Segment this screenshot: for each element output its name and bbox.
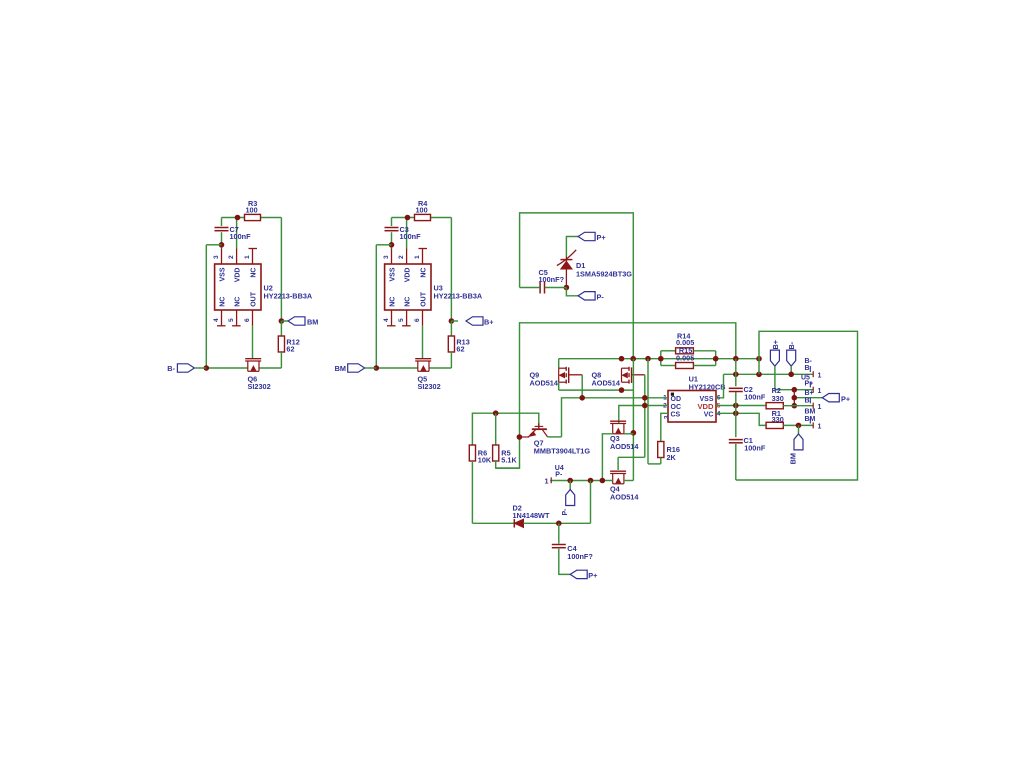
node U2 left junction xyxy=(204,365,210,371)
svg-text:B: B xyxy=(805,397,810,404)
node VC cap tap xyxy=(733,411,739,417)
wire C4 to P+ xyxy=(559,549,570,575)
svg-text:4: 4 xyxy=(383,318,390,322)
svg-text:BM: BM xyxy=(335,364,346,373)
op-amp U2 HY2213-BB3A body xyxy=(215,264,313,310)
wire OC row xyxy=(619,406,668,424)
svg-text:BM: BM xyxy=(805,408,816,415)
wire D2 to C4 node xyxy=(524,481,591,524)
node rail corner xyxy=(756,356,762,362)
pin U1.3 CS xyxy=(663,412,680,419)
svg-text:1SMA5924BT3G: 1SMA5924BT3G xyxy=(576,270,632,279)
svg-text:B-: B- xyxy=(787,341,796,349)
wire R5 top stub xyxy=(495,413,497,445)
node VDD cap tap xyxy=(733,403,739,409)
svg-text:2: 2 xyxy=(398,255,405,259)
resistor R15 xyxy=(676,346,695,369)
wire rail to R16 bottom xyxy=(648,359,661,464)
svg-text:D1: D1 xyxy=(576,261,585,270)
wire U2 left branch xyxy=(206,245,221,368)
pin U2.1 NC xyxy=(244,249,258,278)
wire Q8 gate lead xyxy=(632,375,645,458)
svg-text:3: 3 xyxy=(663,415,670,419)
resistor R4 xyxy=(415,199,431,221)
resistor R13 xyxy=(448,321,469,368)
wire CS row xyxy=(661,413,668,441)
node U3 VDD junction xyxy=(405,215,411,221)
resistor R6 xyxy=(469,445,492,465)
svg-text:NC: NC xyxy=(405,297,412,307)
node U2 VDD junction xyxy=(235,215,241,221)
svg-text:2K: 2K xyxy=(667,453,677,462)
svg-text:NC: NC xyxy=(390,297,397,307)
connector B+ (U3 output) xyxy=(451,317,493,327)
capacitor C3 xyxy=(385,225,422,241)
resistor R16 xyxy=(658,442,680,464)
wire P+ link vertical xyxy=(793,390,795,406)
resistor R14 xyxy=(676,331,695,353)
svg-text:HY2213-BB3A: HY2213-BB3A xyxy=(434,292,483,301)
connector B- (U2 input) xyxy=(167,364,206,373)
connector P- (mid) xyxy=(566,288,604,302)
wire U2 OUT to gate xyxy=(252,326,254,359)
node Q8 drain xyxy=(619,356,625,362)
pin U1.5 VDD xyxy=(697,402,720,411)
svg-text:1: 1 xyxy=(414,255,421,259)
resistor R12 xyxy=(278,321,299,368)
svg-text:BM: BM xyxy=(307,317,318,326)
op-amp U3 HY2213-BB3A body xyxy=(385,264,483,310)
svg-text:VDD: VDD xyxy=(405,268,412,283)
wire source link xyxy=(559,389,634,391)
wire Q7 collector out xyxy=(548,436,562,438)
node sense right xyxy=(713,356,719,362)
node U4 P- tap xyxy=(567,478,573,484)
wire Q9 source down xyxy=(558,382,560,390)
diode D2 1N4148WT xyxy=(513,504,550,528)
wire right frame xyxy=(736,331,858,480)
wire sense resistor right bar xyxy=(693,351,715,366)
resistor R2 xyxy=(766,386,784,409)
svg-text:AOD514: AOD514 xyxy=(610,492,639,501)
svg-text:62: 62 xyxy=(456,345,464,354)
wire Q9 gate lead xyxy=(569,375,583,398)
wire U2 top net xyxy=(222,218,282,319)
node U4 Q3 tap xyxy=(600,478,606,484)
capacitor C1 xyxy=(729,436,766,453)
node U3 right mid junction xyxy=(449,318,455,324)
wire Q7 emitter lead xyxy=(519,436,529,438)
capacitor C5 xyxy=(539,268,565,294)
wire U3 left branch xyxy=(376,245,391,368)
pin U1.2 OC xyxy=(663,403,681,411)
node P+ link top xyxy=(792,387,798,393)
resistor R5 xyxy=(493,445,518,465)
svg-text:2: 2 xyxy=(228,255,235,259)
transistor Q7 MMBT3904LT1G xyxy=(529,423,591,455)
wire B+ main rail xyxy=(496,323,736,468)
pin U2.6 OUT xyxy=(244,291,258,326)
connector B- (pad, vertical) xyxy=(787,341,796,374)
wire sense resistor left bar xyxy=(661,351,676,366)
wire drain rail xyxy=(559,359,759,369)
svg-text:1N4148WT: 1N4148WT xyxy=(513,511,550,520)
node P+ link bottom xyxy=(792,403,798,409)
node U2 right mid junction xyxy=(279,318,285,324)
node Q8 source xyxy=(619,387,625,393)
svg-text:62: 62 xyxy=(286,345,294,354)
wire VSS pin up xyxy=(716,374,724,398)
wire U4 row xyxy=(550,480,633,482)
node sense left xyxy=(658,356,664,362)
wire bias top xyxy=(472,413,538,445)
wire VDD row xyxy=(716,405,766,407)
svg-text:1: 1 xyxy=(818,372,822,379)
svg-text:6: 6 xyxy=(244,318,251,322)
wire U3 source rail xyxy=(376,367,451,369)
svg-text:NC: NC xyxy=(220,297,227,307)
svg-text:P+: P+ xyxy=(588,571,597,580)
svg-text:3: 3 xyxy=(383,255,390,259)
wire OD row xyxy=(562,398,669,437)
transistor Q6 SI2302 xyxy=(245,359,270,391)
svg-text:VDD: VDD xyxy=(697,402,714,411)
wire VC row xyxy=(716,413,766,425)
wire C5 to frame xyxy=(520,213,634,359)
resistor R1 xyxy=(766,409,784,428)
node rail R16 tap xyxy=(645,356,651,362)
wire Q4 gate link xyxy=(618,457,645,470)
svg-text:1: 1 xyxy=(818,404,822,411)
node rail cap junction xyxy=(733,356,739,362)
svg-text:P+: P+ xyxy=(805,380,814,387)
node D1 net to rail xyxy=(630,356,636,362)
svg-text:P-: P- xyxy=(562,508,569,516)
pin header row BM pin 1 xyxy=(805,408,822,430)
pin U3.1 NC xyxy=(414,249,428,278)
node U2 VSS junction xyxy=(219,242,225,248)
svg-text:AOD514: AOD514 xyxy=(530,378,559,387)
svg-text:1: 1 xyxy=(818,388,822,395)
transistor Q5 SI2302 xyxy=(415,359,440,391)
svg-text:100nF: 100nF xyxy=(744,444,766,453)
pin U1.6 VSS xyxy=(699,395,720,403)
pin U3.3 VSS xyxy=(383,249,397,282)
svg-text:B+: B+ xyxy=(771,340,780,350)
pin header row P+ pin 1 xyxy=(775,380,822,397)
capacitor C2 xyxy=(729,385,766,402)
op-amp U1 HY2120CB body xyxy=(668,375,726,423)
connector P+ (top) xyxy=(578,232,606,242)
node P+ link mid xyxy=(792,395,798,401)
svg-text:10K: 10K xyxy=(478,456,492,465)
svg-text:VDD: VDD xyxy=(235,268,242,283)
svg-text:100: 100 xyxy=(416,206,428,215)
wire VSS rail xyxy=(724,373,814,375)
svg-text:1: 1 xyxy=(818,424,822,431)
node R5 top tap xyxy=(493,410,499,416)
svg-text:5: 5 xyxy=(398,318,405,322)
wire cap vertical xyxy=(735,359,737,480)
wire Q3 right leg xyxy=(624,433,634,435)
svg-text:100nF?: 100nF? xyxy=(539,275,565,284)
svg-text:1: 1 xyxy=(544,476,548,485)
svg-text:BM: BM xyxy=(789,453,798,464)
svg-text:P-: P- xyxy=(555,471,563,478)
node VSS corner xyxy=(756,372,762,378)
pin U1.4 VC xyxy=(704,410,721,418)
connector P+ (right) xyxy=(794,394,850,404)
node U4 D2 tap xyxy=(588,478,594,484)
wire mid vertical xyxy=(632,359,634,481)
svg-text:4: 4 xyxy=(213,318,220,322)
node Q7 base tap xyxy=(517,434,523,440)
svg-text:B+: B+ xyxy=(805,390,814,397)
svg-text:SI2302: SI2302 xyxy=(418,382,441,391)
wire P+ zener net xyxy=(566,237,578,257)
svg-text:P-: P- xyxy=(597,292,605,301)
pin U2.3 VSS xyxy=(213,249,227,282)
node B- pad tap xyxy=(788,372,794,378)
node C4 top xyxy=(556,521,562,527)
svg-text:VC: VC xyxy=(704,412,714,419)
resistor R3 xyxy=(245,199,261,221)
svg-text:1: 1 xyxy=(244,255,251,259)
wire R5 bottom xyxy=(496,461,520,468)
transistor Q8 AOD514 xyxy=(592,367,632,388)
wire U2 source rail xyxy=(206,367,281,369)
pin U2.5 NC xyxy=(228,297,242,326)
pin U1.1 OD xyxy=(663,395,681,403)
svg-text:100nF: 100nF xyxy=(400,232,422,241)
svg-text:100nF: 100nF xyxy=(744,393,766,402)
diode D1 zener xyxy=(557,250,632,288)
wire R1 right xyxy=(783,424,813,426)
pin U3.2 VDD xyxy=(398,249,412,283)
svg-text:B+: B+ xyxy=(484,317,494,326)
svg-text:AOD514: AOD514 xyxy=(610,442,639,451)
svg-text:5: 5 xyxy=(228,318,235,322)
pin U2.2 VDD xyxy=(228,249,242,283)
transistor Q4 AOD514 xyxy=(610,471,639,501)
connector BM (U3 input) xyxy=(335,364,377,373)
svg-text:OD: OD xyxy=(671,396,682,403)
node D1 anode junction xyxy=(564,285,570,291)
svg-text:P+: P+ xyxy=(597,233,606,242)
svg-text:B: B xyxy=(805,365,810,372)
svg-text:P+: P+ xyxy=(841,394,850,403)
connector P+ (bottom) xyxy=(570,570,597,580)
connector B+ (pad, vertical) xyxy=(770,340,779,390)
pin header row B1 pin 1 xyxy=(783,397,821,411)
svg-text:330: 330 xyxy=(772,394,784,403)
svg-text:VSS: VSS xyxy=(390,267,397,281)
svg-text:0.005: 0.005 xyxy=(676,354,694,363)
svg-text:HY2120CB: HY2120CB xyxy=(689,382,726,391)
svg-text:NC: NC xyxy=(251,268,258,278)
connector BM (U2 output) xyxy=(281,317,318,327)
svg-text:HY2213-BB3A: HY2213-BB3A xyxy=(264,292,313,301)
capacitor C7 xyxy=(215,225,252,241)
svg-text:100nF?: 100nF? xyxy=(567,552,593,561)
transistor Q9 AOD514 xyxy=(530,367,569,388)
pin U3.6 OUT xyxy=(414,291,428,326)
connector U4 pin 1 xyxy=(544,465,563,485)
transistor Q3 AOD514 xyxy=(610,421,639,451)
node OD mid tap xyxy=(642,395,648,401)
connector BM (pad, vertical) xyxy=(789,425,804,464)
svg-text:OC: OC xyxy=(671,404,682,411)
pin header row B- pin 1 xyxy=(801,358,822,381)
svg-text:VSS: VSS xyxy=(220,267,227,281)
node Q3 right leg junction xyxy=(631,430,637,436)
node U3 VSS junction xyxy=(389,242,395,248)
svg-text:B-: B- xyxy=(167,364,175,373)
svg-text:NC: NC xyxy=(235,297,242,307)
connector P- (pad, vertical) xyxy=(562,481,575,516)
node OC mid tap xyxy=(642,403,648,409)
svg-text:OUT: OUT xyxy=(251,291,258,307)
node VSS cap tap xyxy=(733,372,739,378)
node U3 left junction xyxy=(374,365,380,371)
svg-text:MMBT3904LT1G: MMBT3904LT1G xyxy=(534,446,591,455)
node OD gate tap xyxy=(579,395,585,401)
svg-text:3: 3 xyxy=(213,255,220,259)
pin U3.4 NC xyxy=(383,297,397,326)
svg-text:100nF: 100nF xyxy=(230,232,252,241)
svg-text:OUT: OUT xyxy=(421,291,428,307)
node BM pad tap xyxy=(796,423,802,429)
svg-text:5.1K: 5.1K xyxy=(501,456,517,465)
pin U3.5 NC xyxy=(398,297,412,326)
svg-text:6: 6 xyxy=(414,318,421,322)
wire U3 top net xyxy=(392,218,452,319)
capacitor C4 xyxy=(552,523,594,561)
svg-text:SI2302: SI2302 xyxy=(248,382,271,391)
svg-text:AOD514: AOD514 xyxy=(592,378,621,387)
wire Q3 left leg xyxy=(602,434,612,481)
wire U3 OUT to gate xyxy=(422,326,424,359)
svg-text:NC: NC xyxy=(421,268,428,278)
svg-text:100: 100 xyxy=(246,206,258,215)
svg-text:CS: CS xyxy=(671,412,681,419)
wire R6 bottom to D2 xyxy=(472,461,514,523)
pin U2.4 NC xyxy=(213,297,227,326)
